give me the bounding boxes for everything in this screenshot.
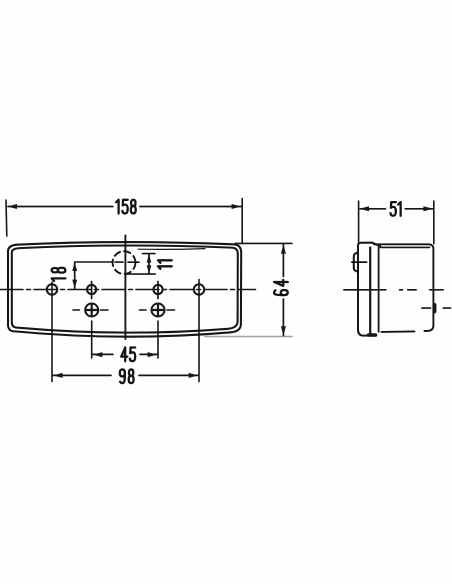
hidden hole horizontal axis / 18-dim connector <box>75 261 139 263</box>
side view body front edge <box>378 246 380 331</box>
lamp front view outer contour <box>8 242 241 337</box>
lower stud hole L2 cross <box>153 305 163 315</box>
side view horizontal centerline <box>344 289 443 291</box>
dimension 98 line <box>53 374 198 376</box>
side view left stud (bulb boss) <box>354 252 358 271</box>
dimension 18 line <box>74 263 76 289</box>
arrow 45 right <box>148 352 158 357</box>
hole H1 outer-left <box>47 284 57 294</box>
dimension text 158 <box>116 200 136 214</box>
arrow 64 up <box>281 244 286 254</box>
dimension 158 line <box>8 206 241 208</box>
dimension text 45 <box>121 348 135 362</box>
arrow 11 down <box>147 265 152 274</box>
dimension 64 extension line top <box>235 242 292 244</box>
dimension text 51 <box>391 202 401 216</box>
side view lens bottom corner (thick) <box>369 333 376 337</box>
arrow 98 right <box>189 373 199 378</box>
dimension 64 line <box>282 245 284 336</box>
dimension text 18 (rotated) <box>52 268 66 281</box>
side view lens back edge <box>369 248 371 335</box>
vertical centerline front view <box>124 236 126 340</box>
dimension 11 line <box>148 255 150 274</box>
lower stud hole L2 horizontal dashes <box>140 309 175 311</box>
arrow 98 left <box>53 373 63 378</box>
lower stud hole L1 horizontal dashes <box>73 309 108 311</box>
side view right stud <box>433 303 435 314</box>
side view body inner top line <box>381 246 430 248</box>
arrow 51 left <box>359 206 369 211</box>
horizontal centerline front view <box>0 289 256 291</box>
side view right stud centerline <box>422 307 451 309</box>
hole H4 outer-right <box>194 284 204 294</box>
lower stud hole L2 extension line (45 dim) <box>157 321 159 358</box>
arrow 11 up <box>147 254 152 263</box>
hole H4 vertical axis / 98 extension line <box>198 280 200 382</box>
dimension 64 extension line bottom (faint) <box>205 336 292 338</box>
arrow 45 left <box>93 352 103 357</box>
dimension 11 bottom tick <box>127 273 156 275</box>
hole H2 inner-left <box>87 285 96 294</box>
dimension text 98 <box>120 369 134 383</box>
dimension text 11 (rotated) <box>158 260 172 269</box>
lamp front view inner contour <box>12 246 238 333</box>
arrow 158 right <box>232 204 242 209</box>
lower stud hole L2 <box>152 304 165 317</box>
arrow 51 right <box>423 206 433 211</box>
hole H3 vertical axis <box>157 282 159 299</box>
dimension 45 line <box>93 353 157 355</box>
lens inner step line <box>138 248 205 251</box>
lower stud hole L1 cross <box>87 305 97 315</box>
dimension 11 top tick <box>143 253 156 255</box>
side view lens front face and caps <box>358 243 380 336</box>
hole H1 vertical axis / 98 extension line <box>51 282 53 382</box>
dimension 158 extension line right <box>241 199 243 244</box>
hole H2 vertical axis <box>91 282 93 299</box>
hole H3 inner-right <box>153 285 162 294</box>
lower stud hole L1 extension line (45 dim) <box>91 321 93 358</box>
dimension 51 line <box>360 208 433 210</box>
dimension 158 extension line left <box>5 200 8 236</box>
hidden hole (dashed circle, dia 11) <box>113 251 136 274</box>
lower stud hole L1 <box>85 304 98 317</box>
arrow 18 up <box>72 262 77 271</box>
dimension 51 extension line right <box>433 201 435 244</box>
arrow 18 down <box>72 280 77 289</box>
side view left stud cross line <box>352 261 367 263</box>
dimension text 64 (rotated) <box>274 280 288 295</box>
dimension 51 extension line left <box>358 201 360 243</box>
arrow 158 left <box>7 204 17 209</box>
arrow 64 down <box>281 326 286 336</box>
side view body outline <box>374 244 434 332</box>
